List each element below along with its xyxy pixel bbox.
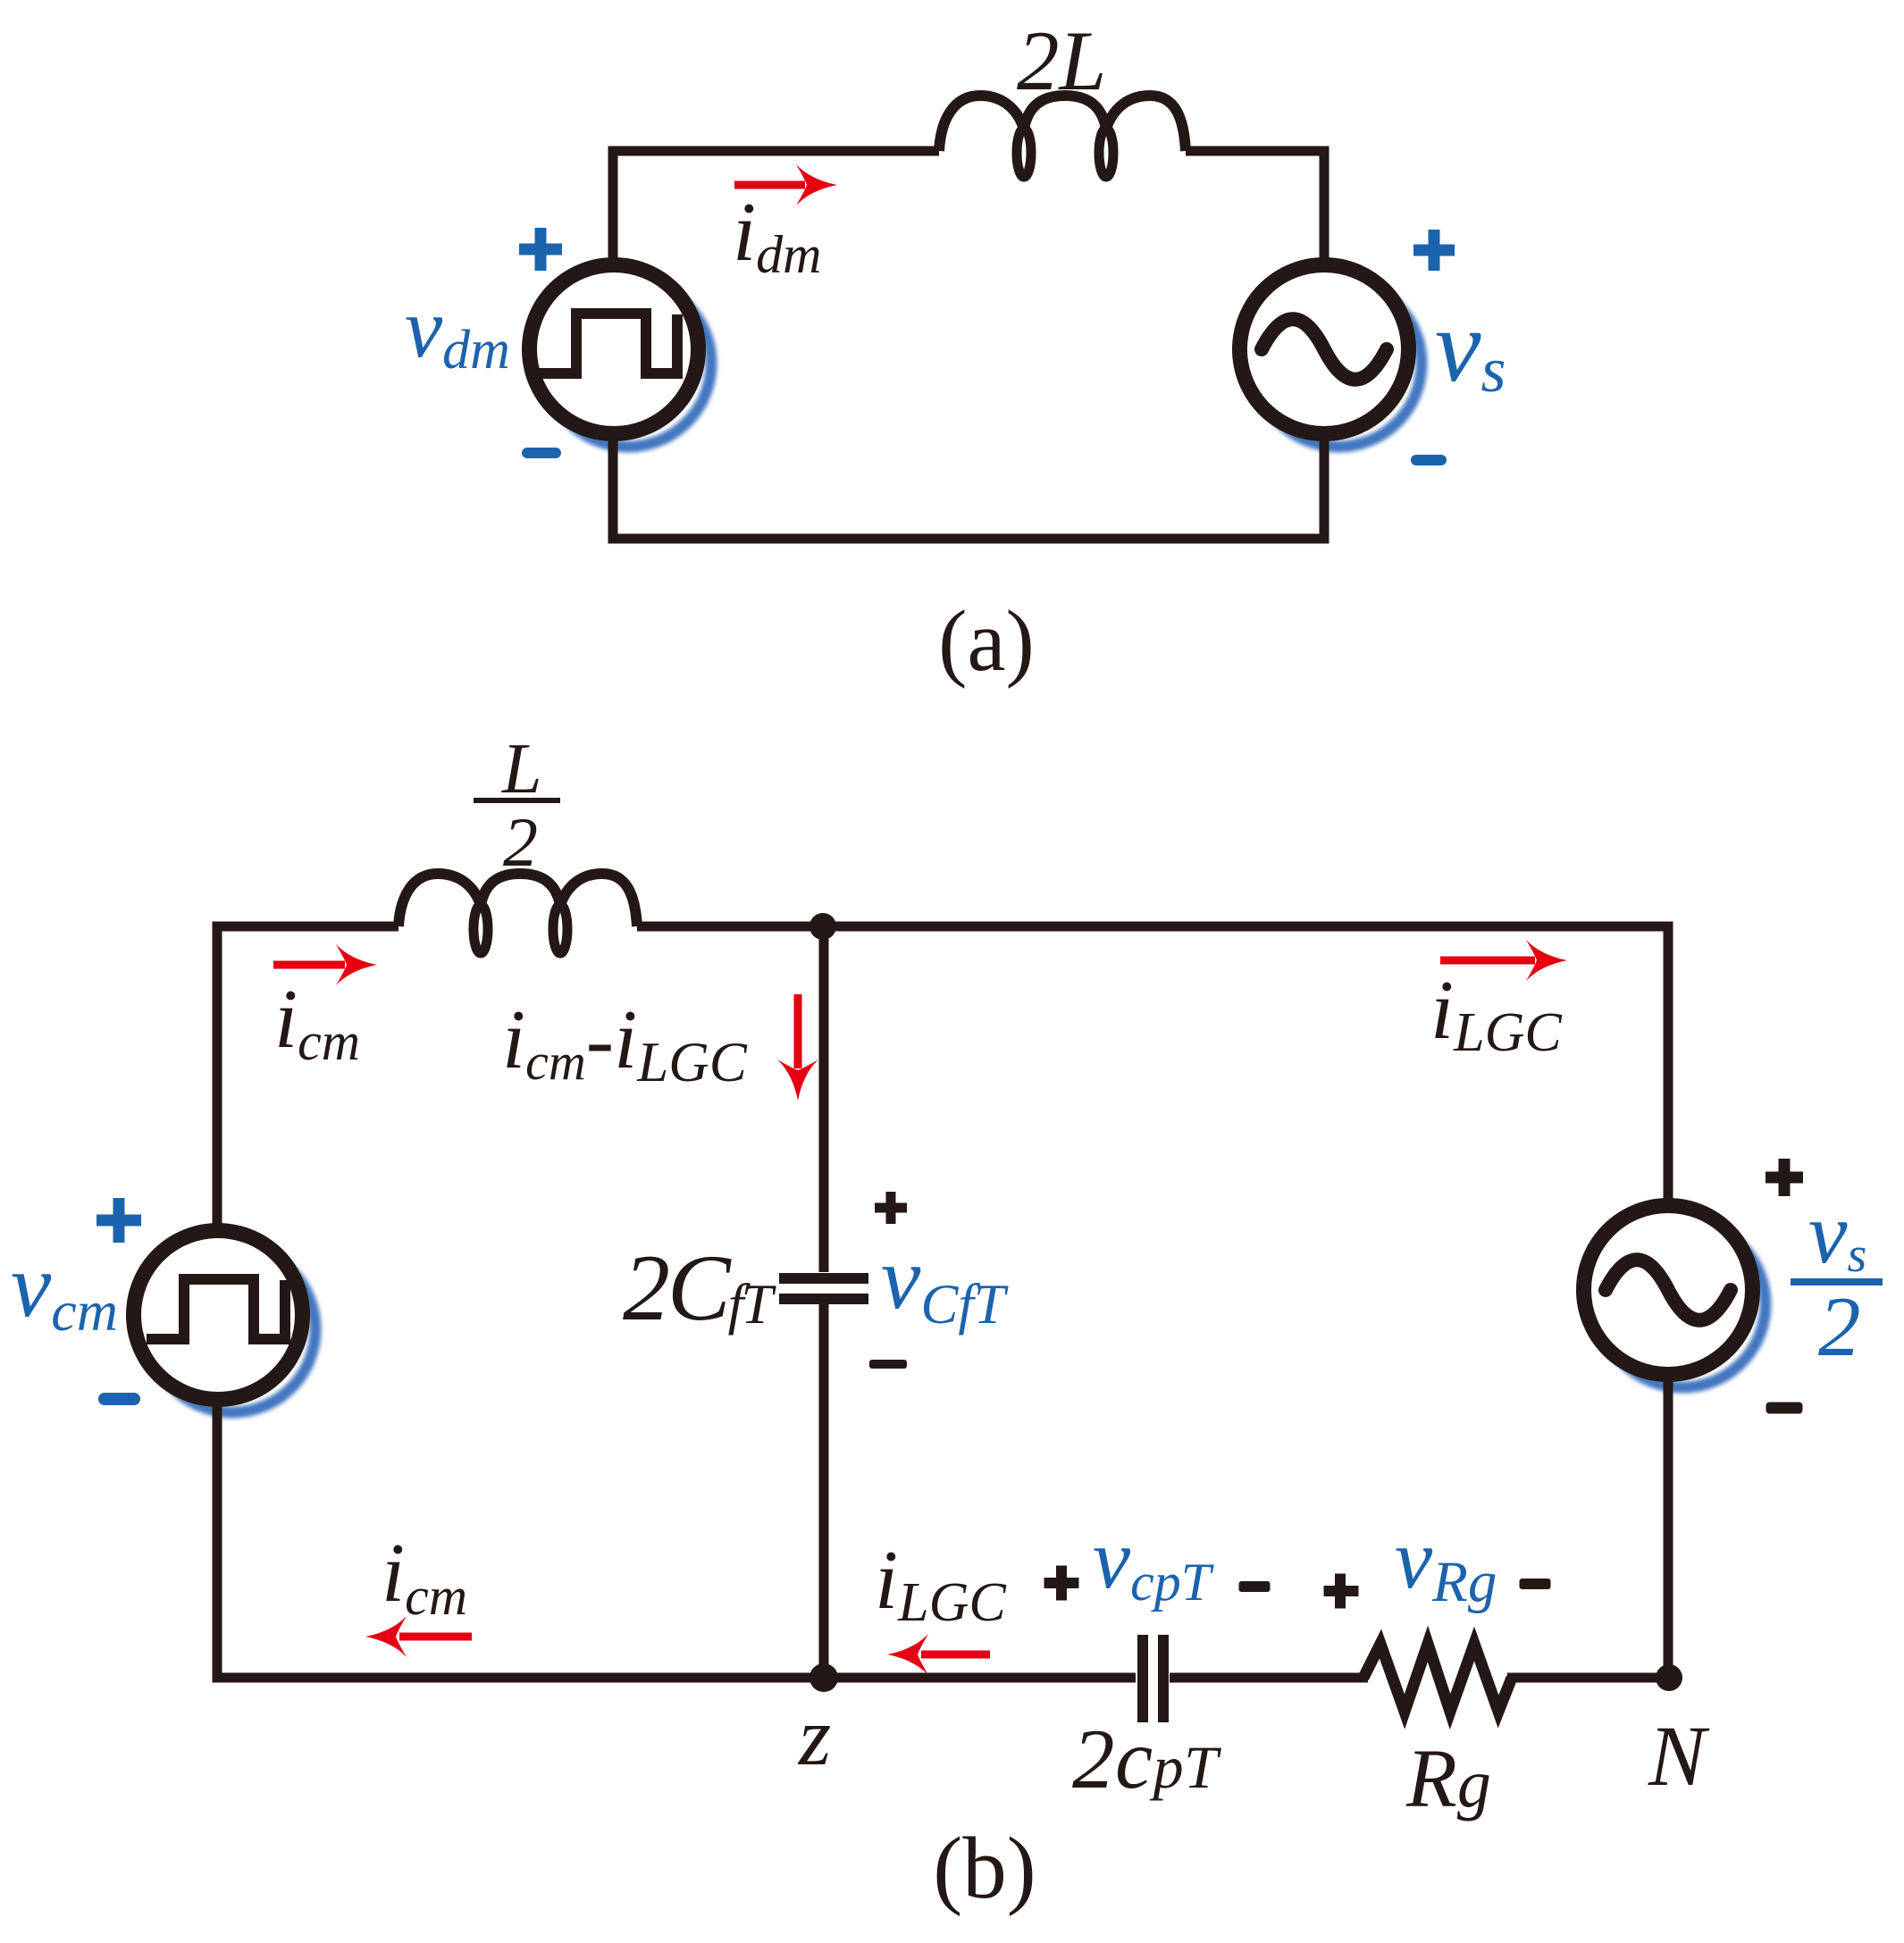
svg-text:vCfT: vCfT	[881, 1228, 1009, 1336]
svg-text:z: z	[797, 1691, 831, 1783]
svg-text:2CfT: 2CfT	[623, 1235, 776, 1340]
svg-text:(a): (a)	[938, 593, 1035, 689]
svg-text:idm: idm	[733, 186, 821, 284]
svg-text:vs: vs	[1435, 289, 1506, 406]
svg-text:iLGC: iLGC	[1430, 964, 1562, 1063]
svg-text:vdm: vdm	[405, 281, 510, 381]
svg-text:vcm: vcm	[11, 1235, 118, 1343]
svg-text:icm: icm	[382, 1527, 467, 1626]
svg-text:(b): (b)	[933, 1820, 1036, 1917]
svg-text:Rg: Rg	[1405, 1733, 1491, 1825]
svg-text:vRg: vRg	[1395, 1512, 1497, 1614]
svg-text:2cpT: 2cpT	[1072, 1712, 1221, 1806]
svg-text:2L: 2L	[1017, 13, 1106, 108]
svg-text:vcpT: vcpT	[1093, 1512, 1214, 1612]
svg-text:2: 2	[1818, 1279, 1861, 1374]
svg-text:2: 2	[503, 803, 538, 881]
svg-text:icm-iLGC: icm-iLGC	[502, 993, 748, 1093]
svg-text:N: N	[1648, 1708, 1710, 1804]
svg-text:L: L	[501, 730, 542, 808]
svg-text:icm: icm	[274, 973, 360, 1071]
svg-text:vs: vs	[1808, 1185, 1866, 1283]
svg-text:iLGC: iLGC	[875, 1534, 1006, 1633]
